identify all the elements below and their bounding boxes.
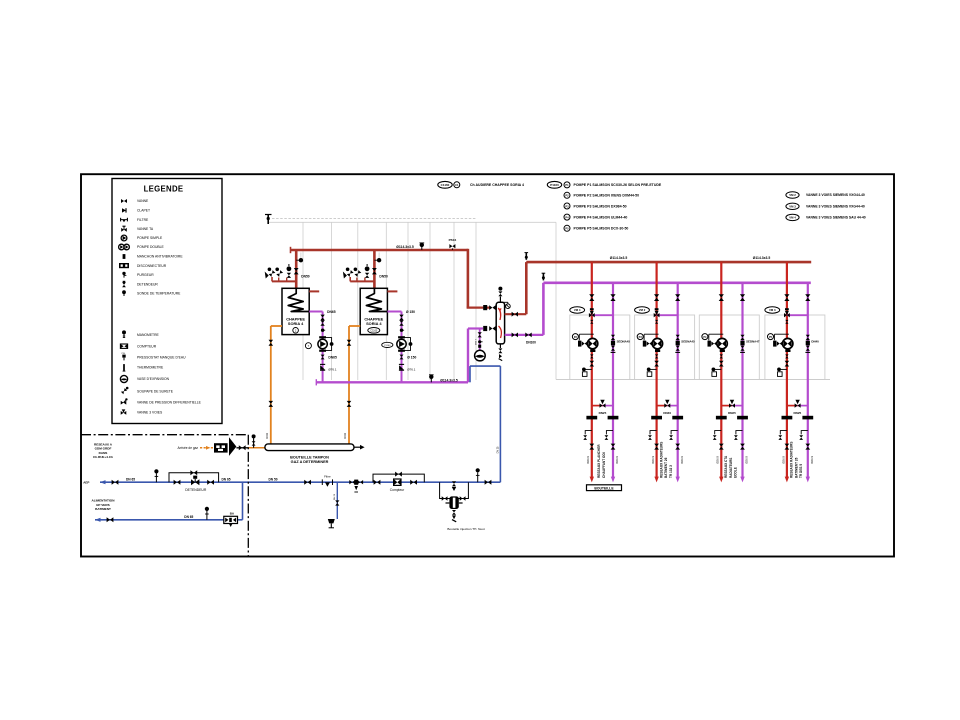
svg-text:DN32: DN32 <box>344 432 347 439</box>
legend item CLAPET <box>122 208 150 212</box>
boiler B1 group <box>265 250 337 444</box>
circulation pump <box>709 334 724 340</box>
wire purple column return <box>677 283 679 478</box>
balancing valve + manchon on return <box>806 335 810 340</box>
svg-text:Ø114.3x3.5: Ø114.3x3.5 <box>753 256 771 260</box>
svg-text:BOUTEILLE: BOUTEILLE <box>594 486 614 490</box>
separator bottom drain <box>498 344 502 361</box>
svg-text:SEDNA47: SEDNA47 <box>746 340 760 344</box>
svg-text:POMPE P3 SALMSON DX984-50: POMPE P3 SALMSON DX984-50 <box>574 204 627 208</box>
legend box <box>112 179 222 424</box>
gray equipment box <box>765 315 825 380</box>
stamp pump P2 <box>572 334 578 340</box>
svg-text:Ø114.3x3.5: Ø114.3x3.5 <box>396 245 414 249</box>
svg-text:TR 132 3: TR 132 3 <box>669 465 673 478</box>
flexible couplers <box>716 416 727 420</box>
wire red separator to header <box>505 313 527 315</box>
svg-text:PRESSOSTAT MANQUE D’EAU: PRESSOSTAT MANQUE D’EAU <box>137 355 186 359</box>
sonde under pump <box>777 368 787 377</box>
disconnector BA <box>224 511 238 527</box>
wire orange gas to boiler <box>270 326 272 444</box>
gas outlet arrow <box>354 446 361 448</box>
svg-text:P1: P1 <box>565 183 569 187</box>
wire purple column return <box>741 283 743 478</box>
wire purple column return <box>612 283 614 478</box>
3-way valve <box>784 313 790 317</box>
svg-text:VM 2: VM 2 <box>639 308 646 312</box>
svg-text:Ø26.9: Ø26.9 <box>716 456 720 464</box>
svg-text:VANNE 3 VOIES SIEMENS SAU 44-4: VANNE 3 VOIES SIEMENS SAU 44-40 <box>806 216 866 220</box>
check valve on return <box>321 355 325 360</box>
wire red stub boiler outlet <box>309 290 319 292</box>
sonde under pump <box>647 368 657 377</box>
svg-text:BATIMENT 26: BATIMENT 26 <box>794 457 798 478</box>
drain bracket <box>780 431 787 435</box>
valves under pump <box>720 354 723 358</box>
purple return arrow <box>611 477 615 483</box>
svg-text:DN65: DN65 <box>327 310 336 314</box>
valves under pump <box>785 354 788 358</box>
purple return arrow <box>806 477 810 483</box>
svg-text:C1: C1 <box>455 183 459 187</box>
wire red column riser <box>786 262 788 478</box>
valve before riser <box>485 480 492 485</box>
svg-text:P2: P2 <box>565 194 569 198</box>
svg-text:Bouteille injection TH. Neut: Bouteille injection TH. Neut <box>447 527 484 531</box>
water meter bypass <box>373 474 424 482</box>
sonde on purple header <box>429 375 434 383</box>
thermometer purple riser <box>542 273 546 280</box>
svg-text:C1160: C1160 <box>441 183 450 187</box>
wire red boiler drop <box>373 250 376 290</box>
svg-text:Ø26.9: Ø26.9 <box>781 456 785 464</box>
legend item PRESSOSTAT MANQUE D’EAU <box>122 353 186 360</box>
svg-text:VANNE 3 VOIES: VANNE 3 VOIES <box>137 411 163 415</box>
injection bottle <box>446 496 463 509</box>
injection bottle drain <box>452 510 456 522</box>
svg-text:C1160: C1160 <box>370 330 378 333</box>
valve on main between taps <box>452 481 456 491</box>
boiler body <box>282 288 309 334</box>
drawing frame <box>81 174 894 556</box>
sonde on red header <box>419 243 424 250</box>
isolation valve bottom <box>805 444 810 450</box>
red supply arrow <box>654 477 658 483</box>
svg-text:SORIA 4: SORIA 4 <box>366 321 382 326</box>
isolation valve on boiler drop <box>372 268 377 274</box>
water meter <box>394 479 401 485</box>
sonde on boiler drop <box>374 253 381 263</box>
svg-text:RESEAUX CTA: RESEAUX CTA <box>724 455 728 478</box>
drain bracket <box>736 431 743 435</box>
svg-text:POMPE P4 SALMSON ULM44-40: POMPE P4 SALMSON ULM44-40 <box>574 215 628 219</box>
svg-text:GAZ A DETERMINER: GAZ A DETERMINER <box>291 460 329 464</box>
legend item FILTRE <box>121 218 149 222</box>
wire purple distribution header <box>543 281 810 284</box>
circulation pump <box>774 334 789 340</box>
manometer building feed <box>205 507 209 520</box>
manometer before riser <box>476 468 480 482</box>
red supply arrow <box>719 477 723 483</box>
svg-text:PURGEUR: PURGEUR <box>137 273 154 277</box>
valve purple separator inlet <box>489 326 495 331</box>
wire red column riser <box>655 262 657 478</box>
wire red boiler header <box>291 249 468 252</box>
svg-text:DN50: DN50 <box>379 274 388 278</box>
3-way valve <box>654 313 660 317</box>
safety valve manifold <box>350 280 374 282</box>
wire purple boiler return <box>387 311 401 313</box>
svg-text:RESEAUX RADIATEURS: RESEAUX RADIATEURS <box>790 442 794 478</box>
valves on boiler return <box>399 315 403 321</box>
svg-text:POMPE P1 SALMSON SCX30-26 SELO: POMPE P1 SALMSON SCX30-26 SELON PRE-ETUD… <box>574 183 662 187</box>
balancing valve + manchon on return <box>676 335 680 340</box>
boiler body <box>360 288 387 334</box>
svg-text:RADIATEURS: RADIATEURS <box>729 458 733 478</box>
svg-text:P1160: P1160 <box>550 183 559 187</box>
svg-text:Ch AUDIERE CHAPPEE SORIA 4: Ch AUDIERE CHAPPEE SORIA 4 <box>470 183 524 187</box>
valve note VM 3 <box>786 203 865 209</box>
legend item DETENDEUR <box>122 281 158 287</box>
injection bottle bypass <box>440 482 469 498</box>
svg-text:DN 65: DN 65 <box>184 515 193 519</box>
svg-text:DETENDEUR: DETENDEUR <box>137 282 158 286</box>
svg-text:Ø33.7: Ø33.7 <box>476 338 478 345</box>
drain bracket <box>650 431 657 435</box>
pump bypass <box>402 338 411 351</box>
disconnector <box>349 480 363 492</box>
expansion vessel stub <box>479 329 481 351</box>
wire blue make-up <box>469 366 471 382</box>
isolation valve bottom <box>785 444 790 450</box>
valve before reducer <box>174 480 181 485</box>
svg-text:Ø 150: Ø 150 <box>406 310 415 314</box>
valve purple column <box>675 294 680 301</box>
svg-text:DN100: DN100 <box>526 340 536 344</box>
svg-text:DN 20: DN 20 <box>334 493 336 500</box>
isolation valve bottom <box>740 444 745 450</box>
boiler pump <box>319 336 326 338</box>
svg-text:SEDNA45: SEDNA45 <box>617 340 631 344</box>
svg-text:BOUTEILLE TAMPON: BOUTEILLE TAMPON <box>290 456 329 460</box>
boundary dashed GDF domain <box>81 434 248 436</box>
svg-text:BATIMENT: BATIMENT <box>95 507 111 511</box>
wire purple mixing link <box>592 314 613 316</box>
valve after meter <box>410 480 417 485</box>
isolation valve bottom <box>589 444 594 450</box>
wire orange gas to boiler <box>348 326 350 444</box>
svg-text:DN 50: DN 50 <box>268 477 277 481</box>
svg-text:PS04: PS04 <box>449 238 457 242</box>
wire purple mixing link <box>787 314 808 316</box>
flexible couplers <box>586 416 597 420</box>
isolation valve on boiler drop <box>294 268 299 274</box>
manometer AEP <box>154 469 158 482</box>
stamp VM 2 <box>635 307 650 313</box>
water filter <box>322 475 332 487</box>
manchon purple separator inlet <box>483 326 487 331</box>
svg-text:THERMOMETRE: THERMOMETRE <box>137 366 164 370</box>
valve note VM 4 <box>786 214 866 220</box>
wire red stub boiler outlet <box>387 290 397 292</box>
purple return arrow <box>676 477 680 483</box>
stamp VM 4 <box>570 307 585 313</box>
valve purple column <box>805 294 810 301</box>
svg-text:P1160: P1160 <box>384 345 391 347</box>
flexible couplers <box>651 416 662 420</box>
sonde under pump <box>712 368 722 377</box>
svg-text:P3: P3 <box>565 204 569 208</box>
svg-text:P4: P4 <box>565 215 569 219</box>
distribution circuit 4 <box>765 262 825 482</box>
svg-text:POMPE SIMPLE: POMPE SIMPLE <box>137 236 163 240</box>
gray equipment box <box>635 315 695 380</box>
svg-text:VANNE 3 VOIES SIEMENS VXG44-40: VANNE 3 VOIES SIEMENS VXG44-40 <box>806 205 865 209</box>
valve PS04 on red header <box>449 238 457 250</box>
legend item MANCHON ANTIVIBRATOIRE <box>123 254 184 259</box>
drain with funnel <box>328 482 340 528</box>
valve red column <box>719 294 724 301</box>
svg-text:VM 4: VM 4 <box>789 216 796 220</box>
legend item DISCONNECTEUR <box>119 263 167 268</box>
pressure reducer DETENDEUR <box>191 476 199 486</box>
svg-text:DN25: DN25 <box>728 411 736 415</box>
valve purple column <box>610 294 615 301</box>
wire purple boiler header <box>316 381 468 383</box>
wire red boiler drop <box>295 250 298 290</box>
svg-text:Ø26.9: Ø26.9 <box>810 456 814 464</box>
wire red column riser <box>720 262 722 478</box>
boxed destination label <box>587 485 622 491</box>
gas police valve <box>229 437 236 456</box>
valves on boiler return <box>320 315 324 321</box>
distribution circuit 3 <box>699 262 760 482</box>
gray equipment box <box>699 315 759 380</box>
svg-text:VANNE 3 VOIES SIEMENS VXG44-40: VANNE 3 VOIES SIEMENS VXG44-40 <box>806 193 865 197</box>
svg-text:Ø26.9: Ø26.9 <box>745 456 749 464</box>
legend item COMPTEUR <box>120 344 156 348</box>
sonde under pump <box>582 368 592 377</box>
check valve on return <box>400 355 404 360</box>
drain bracket <box>606 431 613 435</box>
legend item VANNE DE PRESSION DIFFERENTIELLE <box>121 398 202 404</box>
pump note P2 <box>564 192 639 198</box>
legend item PURGEUR <box>122 272 154 278</box>
svg-text:VANNE TA: VANNE TA <box>137 227 154 231</box>
pump bypass <box>323 338 332 351</box>
separator bottle <box>496 302 504 344</box>
svg-text:COMPTEUR: COMPTEUR <box>137 344 157 348</box>
svg-text:DN 65: DN 65 <box>126 477 135 481</box>
wire purple separator to header <box>505 334 544 336</box>
drain bracket <box>801 431 808 435</box>
svg-text:Ø114.3x3.5: Ø114.3x3.5 <box>610 256 628 260</box>
valve note VM 2 <box>786 192 865 198</box>
svg-text:DN40: DN40 <box>663 411 671 415</box>
svg-text:DN50: DN50 <box>301 274 310 278</box>
isolation valve bottom <box>654 444 659 450</box>
svg-text:VM 4: VM 4 <box>574 308 581 312</box>
pump note P5 <box>564 225 628 231</box>
valve AEP 1 <box>112 480 119 485</box>
valves under pump <box>590 354 593 358</box>
svg-text:POMPE P2 SALMSON IXENS DXM44-5: POMPE P2 SALMSON IXENS DXM44-50 <box>574 194 640 198</box>
legend item VANNE 3 VOIES <box>121 409 163 414</box>
svg-text:CLAPET: CLAPET <box>137 209 150 213</box>
svg-text:Ø76.1: Ø76.1 <box>407 368 416 372</box>
gas buffer bottle <box>265 444 354 451</box>
isolation valve bottom <box>611 444 616 450</box>
svg-text:POMPE DOUBLE: POMPE DOUBLE <box>137 245 165 249</box>
valve before meter <box>374 480 381 485</box>
svg-text:Filtre: Filtre <box>324 475 331 479</box>
legend item SONDE DE TEMPERATURE <box>122 290 181 296</box>
valve red separator inlet <box>489 305 495 310</box>
legend item THERMOMETRE <box>123 364 164 371</box>
svg-text:Arrivée de gaz: Arrivée de gaz <box>177 446 198 450</box>
valve gas <box>236 447 248 449</box>
svg-text:SONDE DE TEMPERATURE: SONDE DE TEMPERATURE <box>137 292 181 296</box>
boiler pump <box>398 336 405 338</box>
svg-text:P5: P5 <box>565 227 569 231</box>
svg-text:SEDNA45: SEDNA45 <box>681 340 695 344</box>
svg-text:DN40: DN40 <box>811 340 819 344</box>
legend item VASE D’EXPANSION <box>120 375 169 382</box>
gas riser at boundary <box>248 434 265 447</box>
wire blue building feed <box>95 519 243 521</box>
pressure-diff bypass <box>657 405 668 407</box>
svg-text:BATIMENT 26: BATIMENT 26 <box>664 457 668 478</box>
pump note P1 <box>564 182 662 188</box>
distribution circuit 1 <box>570 262 631 490</box>
gas regulator block <box>214 443 228 452</box>
valve red column <box>784 294 789 301</box>
wire purple column return <box>807 283 809 478</box>
construction lines (building) <box>268 222 830 380</box>
svg-text:LEGENDE: LEGENDE <box>144 185 184 194</box>
svg-text:Ch.RUE+4.Ch: Ch.RUE+4.Ch <box>93 455 113 459</box>
svg-text:RESEAUX PLANCHER: RESEAUX PLANCHER <box>597 444 601 478</box>
wire orange gas inlet <box>200 447 214 449</box>
pump note P3 <box>564 203 627 209</box>
svg-text:TR DES 5: TR DES 5 <box>799 464 803 478</box>
expansion vessel <box>475 350 486 361</box>
red supply arrow <box>590 477 594 483</box>
stamp pump P5 <box>768 334 774 340</box>
valve purple separator outlet <box>512 333 518 338</box>
separator top purge <box>498 287 510 309</box>
svg-text:DN25: DN25 <box>794 411 802 415</box>
svg-text:POMPE P5 SALMSON DCX-30-50: POMPE P5 SALMSON DCX-30-50 <box>574 227 629 231</box>
legend item POMPE DOUBLE <box>119 244 165 250</box>
wire red distribution header <box>526 261 811 264</box>
svg-text:SOUPAPE DE SURETE: SOUPAPE DE SURETE <box>137 389 174 393</box>
distribution circuit 2 <box>635 262 695 482</box>
svg-text:SORIA 4: SORIA 4 <box>288 321 304 326</box>
isolation valve bottom <box>719 444 724 450</box>
3-way valve <box>589 313 595 317</box>
svg-text:DN65: DN65 <box>328 356 337 360</box>
wire purple riser to separator <box>467 329 469 383</box>
valve purple DN100 <box>525 333 536 345</box>
drain bracket <box>671 431 678 435</box>
svg-text:Ø26.9: Ø26.9 <box>651 456 655 464</box>
valve after reducer <box>207 480 214 485</box>
svg-text:VM 2: VM 2 <box>789 193 796 197</box>
gas valves <box>269 340 274 346</box>
svg-text:Ø114.3x3.5: Ø114.3x3.5 <box>440 378 458 382</box>
valve red separator outlet <box>512 312 518 317</box>
svg-text:Ø26.9: Ø26.9 <box>615 456 619 464</box>
svg-text:VM 3: VM 3 <box>789 205 796 209</box>
circulation pump <box>579 334 594 340</box>
legend item VANNE TA <box>121 226 154 232</box>
sonde on boiler drop <box>296 253 303 263</box>
stamp VM 3 <box>765 307 780 313</box>
svg-text:Compteur: Compteur <box>390 488 405 492</box>
svg-text:DN 25: DN 25 <box>497 446 500 453</box>
svg-text:AEP: AEP <box>83 481 89 485</box>
drain bracket <box>585 431 592 435</box>
svg-text:MANOMETRE: MANOMETRE <box>137 333 160 337</box>
svg-text:DN32: DN32 <box>266 432 269 439</box>
gray equipment box <box>570 315 630 380</box>
stamp C1160 boiler type <box>438 181 524 188</box>
valves under pump <box>655 354 658 358</box>
flexible couplers <box>782 416 793 420</box>
svg-text:MANCHON ANTIVIBRATOIRE: MANCHON ANTIVIBRATOIRE <box>137 255 183 259</box>
safety valve manifold <box>272 280 296 282</box>
svg-text:VANNE: VANNE <box>137 199 149 203</box>
manchon red separator inlet <box>483 305 487 310</box>
stamp pump P4 <box>702 334 708 340</box>
svg-text:DISCONNECTEUR: DISCONNECTEUR <box>137 264 167 268</box>
legend item VANNE <box>121 199 149 203</box>
wire blue AEP main <box>100 481 500 483</box>
gas valves <box>347 340 352 346</box>
valve red column <box>654 294 659 301</box>
isolation valve bottom <box>675 444 680 450</box>
svg-text:DN25: DN25 <box>599 411 607 415</box>
wire purple boiler return <box>309 311 322 313</box>
circulation pump <box>644 334 659 340</box>
boiler B2 group <box>343 250 417 444</box>
svg-text:VANNE DE PRESSION DIFFERENTIEL: VANNE DE PRESSION DIFFERENTIELLE <box>137 400 202 404</box>
svg-text:FILTRE: FILTRE <box>137 218 149 222</box>
svg-text:Ø76.1: Ø76.1 <box>328 368 337 372</box>
pressure-diff bypass <box>787 405 798 407</box>
valve after boundary <box>304 480 311 485</box>
pump note P4 <box>564 214 627 220</box>
legend item MANOMETRE <box>122 330 160 338</box>
thermometer red riser <box>525 253 529 260</box>
valve building feed <box>107 517 114 522</box>
legend item SOUPAPE DE SURETE <box>121 387 174 395</box>
pressure reducer bypass <box>169 473 219 482</box>
stamp pump P3 <box>637 334 643 340</box>
svg-text:Ø 150: Ø 150 <box>407 356 416 360</box>
wire purple mixing link <box>657 314 678 316</box>
svg-text:ECOLE: ECOLE <box>734 467 738 478</box>
svg-text:Ø26.9: Ø26.9 <box>680 456 684 464</box>
svg-text:DN 65: DN 65 <box>221 477 230 481</box>
wire red column riser <box>591 262 593 478</box>
flue vent <box>265 214 476 224</box>
pressure-diff bypass <box>721 405 732 407</box>
stamp P1160 pump list <box>547 181 561 188</box>
svg-text:Ø26.9: Ø26.9 <box>586 456 590 464</box>
svg-text:VASE D’EXPANSION: VASE D’EXPANSION <box>137 377 170 381</box>
